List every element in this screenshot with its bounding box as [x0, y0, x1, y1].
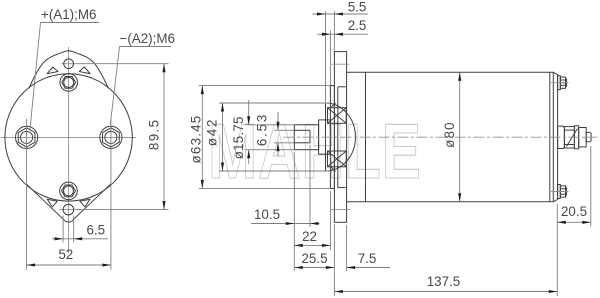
left terminal bolt inner circle: [21, 131, 33, 143]
dim 89.5 bottom extension: [77, 209, 169, 211]
bearing bottom box: [328, 151, 347, 167]
arrow 5.5 right: [334, 12, 343, 15]
dim 6.53 top extension: [274, 129, 294, 131]
fork slot bottom line: [294, 142, 310, 144]
dim 63.45 top extension: [199, 85, 330, 87]
top stud washer: [558, 76, 561, 90]
top through-bolt outer circle: [60, 74, 78, 92]
dim 7.5 left extension: [346, 225, 348, 271]
svg-text:ø15.75: ø15.75: [231, 116, 246, 159]
svg-text:−(A2);M6: −(A2);M6: [120, 31, 175, 46]
arrow 7.5 right: [347, 266, 356, 269]
top stud thread lines: [560, 80, 565, 85]
main terminal nut flats: [564, 130, 574, 144]
bearing cap dome: [326, 103, 356, 171]
arrow 6.53 up: [276, 143, 279, 152]
top tab hole: [64, 59, 74, 69]
dim 10.5 left extension: [293, 152, 295, 271]
dim 52 line: [27, 264, 111, 266]
bearing cap left face: [325, 103, 327, 171]
dim 15.75 bottom extension: [245, 149, 294, 151]
dim 15.75 top extension: [245, 124, 294, 126]
bottom stud centerline: [551, 191, 569, 193]
body right edge: [552, 72, 554, 202]
bottom tab left cutout: [47, 199, 57, 207]
top tab right cutout: [79, 67, 90, 74]
arrow 15.75 up: [247, 150, 250, 159]
shaft collar: [319, 120, 331, 154]
flange top hole centerline: [332, 63, 350, 65]
flange hub bore line: [337, 87, 339, 188]
arrow 6.53 down: [276, 122, 279, 131]
dim 52 left extension: [26, 119, 28, 270]
bearing top box: [328, 108, 347, 124]
svg-text:ø80: ø80: [442, 121, 457, 148]
bottom stud thread body: [560, 186, 565, 197]
arrow 20.5 right: [582, 221, 591, 224]
dim 25.5 line: [294, 267, 334, 269]
arrow 5.5 left: [317, 12, 326, 15]
arrow 2.5 right: [334, 33, 343, 36]
arrow 42 up: [221, 103, 224, 112]
end cap seam: [549, 72, 551, 202]
dim 25.5 right extension: [333, 224, 335, 296]
svg-text:ø63.45: ø63.45: [189, 115, 204, 164]
dim 6.53 line lower: [277, 143, 279, 156]
label A2 underline: [120, 46, 172, 48]
arrow 10.5 left: [286, 222, 295, 225]
dim 15.75 line lower: [248, 150, 250, 164]
main terminal thread slash: [567, 129, 578, 147]
bottom stud thread lines: [560, 189, 565, 194]
label A2 leader: [110, 47, 119, 125]
dim 6.5 left extension: [62, 216, 64, 243]
arrow 25.5 left: [294, 266, 303, 269]
main terminal stud tip: [586, 132, 591, 141]
front view main circle: [5, 74, 132, 201]
bearing bottom chamfer: [331, 167, 336, 172]
arrow 52 right: [102, 263, 111, 266]
main terminal hex nut: [564, 127, 574, 148]
arrow 20.5 left: [557, 221, 566, 224]
dim 2.5 left extension: [329, 31, 331, 86]
dim 15.75 line upper: [248, 100, 250, 125]
svg-text:2.5: 2.5: [348, 18, 367, 33]
right terminal bolt inner circle: [105, 131, 117, 143]
hub bore top step: [338, 86, 346, 88]
dim 89.5 top extension: [77, 63, 169, 65]
top stud tip: [566, 78, 567, 87]
dim 63.45 bottom extension: [199, 187, 330, 189]
dim 20.5 line: [557, 221, 591, 223]
dim 42 bottom extension: [219, 170, 330, 172]
right terminal bolt outer circle: [100, 126, 122, 148]
arrow 52 left: [27, 263, 35, 266]
dim 7.5 line: [347, 267, 390, 269]
top tab left cutout: [47, 67, 58, 74]
fork slot top line: [294, 129, 310, 131]
arrow 22 right: [322, 244, 331, 247]
arrow 63.45 down: [201, 180, 204, 189]
left terminal bolt hexagon: [18, 128, 35, 147]
label A1 leader: [30, 23, 41, 130]
label A1 underline: [41, 22, 100, 24]
svg-text:52: 52: [58, 247, 73, 262]
top tab hole crosshair: [61, 63, 77, 65]
bottom through-bolt hexagon: [62, 185, 76, 197]
arrow 10.5 right: [310, 222, 319, 225]
bearing bottom box X: [328, 151, 347, 167]
dim 5.5 line: [313, 13, 369, 15]
flange plate: [334, 52, 346, 223]
top through-bolt hexagon: [62, 77, 76, 89]
fork slot end: [309, 130, 311, 143]
left terminal bolt outer circle: [16, 126, 38, 148]
svg-text:+(A1);M6: +(A1);M6: [41, 7, 96, 22]
bottom mounting tab: [27, 184, 111, 222]
arrow 42 down: [221, 163, 224, 172]
dim 10.5 line: [251, 223, 320, 225]
arrow 22 left: [294, 244, 303, 247]
side view main centerline: [284, 136, 597, 138]
bottom tab hole crosshair: [60, 209, 79, 211]
dim 52 right extension: [110, 119, 112, 270]
bearing hub ring: [330, 86, 334, 189]
dim 89.5 line: [163, 64, 165, 210]
front view vertical centerline: [68, 47, 70, 253]
dim 2.5 line: [317, 33, 368, 35]
bottom through-bolt outer circle: [60, 182, 78, 200]
svg-text:10.5: 10.5: [254, 207, 280, 222]
top through-bolt inner circle: [64, 77, 74, 87]
arrow 63.45 up: [201, 86, 204, 95]
svg-text:89.5: 89.5: [147, 118, 162, 150]
arrow 80 down: [458, 193, 461, 202]
main terminal sleeve nut: [579, 128, 587, 147]
bottom tab right cutout: [80, 199, 90, 207]
top mounting tab: [29, 51, 109, 89]
top stud centerline: [551, 82, 569, 84]
dim 80 line: [459, 72, 461, 202]
arrow 25.5 right: [326, 266, 335, 269]
dim 6.5 line: [52, 238, 108, 240]
dim 137.5 right extension: [556, 204, 558, 296]
dim 6.53 line upper: [277, 112, 279, 130]
dim 22 right extension: [329, 191, 331, 250]
arrow 137.5 right: [549, 290, 558, 293]
svg-text:22: 22: [302, 229, 317, 244]
front view horizontal centerline: [1, 136, 136, 138]
dim 42 top extension: [219, 102, 330, 104]
svg-text:5.5: 5.5: [348, 0, 367, 15]
watermark MAHLE: [208, 112, 422, 190]
bottom stud washer: [558, 185, 561, 199]
main terminal washer: [574, 126, 578, 149]
dim 6.53 bottom extension: [274, 142, 294, 144]
arrow 137.5 left: [334, 290, 343, 293]
housing seam: [365, 72, 367, 202]
dim 20.5 right extension: [590, 146, 592, 227]
svg-text:25.5: 25.5: [301, 251, 327, 266]
arrow 6.5 right: [74, 237, 83, 240]
shaft fork: [294, 125, 318, 150]
dim 6.5 right extension: [73, 216, 75, 243]
arrow 6.5 left: [55, 237, 64, 240]
svg-text:137.5: 137.5: [427, 274, 461, 289]
bearing top box X: [328, 108, 347, 124]
dim 22 line: [294, 244, 330, 246]
bottom tab hole: [63, 204, 74, 215]
bottom stud tip: [566, 187, 567, 196]
bottom through-bolt inner circle: [64, 186, 74, 196]
svg-text:6.53: 6.53: [254, 113, 269, 146]
bearing top chamfer: [331, 103, 336, 108]
motor body outline: [347, 72, 558, 202]
flange bottom hole centerline: [331, 209, 350, 211]
dim 42 line: [222, 103, 224, 171]
main terminal insulator base: [558, 126, 565, 148]
arrow 89.5 down: [162, 201, 165, 210]
dim 10.5 right extension: [309, 145, 311, 227]
right terminal bolt hexagon: [103, 128, 120, 147]
arrow 89.5 up: [162, 64, 165, 72]
arrow 15.75 down: [247, 116, 250, 125]
svg-text:6.5: 6.5: [86, 223, 105, 238]
svg-text:7.5: 7.5: [358, 251, 377, 266]
dim 137.5 line: [334, 291, 557, 293]
dim 5.5 left extension: [325, 11, 327, 102]
svg-text:ø42: ø42: [205, 118, 220, 146]
svg-text:20.5: 20.5: [561, 204, 587, 219]
dim 5.5 right extension: [333, 11, 335, 51]
dim 63.45 line: [201, 86, 203, 189]
arrow 2.5 left: [322, 33, 331, 36]
arrow 80 up: [458, 72, 461, 81]
top stud thread body: [560, 77, 565, 88]
hub bore bottom step: [338, 187, 346, 189]
